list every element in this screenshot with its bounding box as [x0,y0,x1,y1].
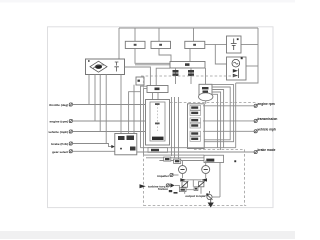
output wire 2 [203,120,254,122]
loop wire right outer [235,83,237,148]
transfer-fcn block with gain diamond [86,59,125,75]
wire bus to block R3 [193,28,195,41]
wire block A drop 1 [175,68,177,84]
impeller port [170,173,173,176]
output wire 1 [203,105,254,107]
ground [208,200,214,208]
svg-text:brake (ft-lb): brake (ft-lb) [51,142,68,146]
turbine wire [169,184,172,186]
wire right drop from bus [236,28,258,83]
wire to mult circle 1 [182,161,184,166]
wire JK to integrator 2 [157,93,159,100]
output label 3 [258,127,276,131]
wire bus to block R1 [134,28,136,41]
chip cell 3b [190,137,201,142]
svg-text:friction: friction [158,187,168,191]
svg-text:engine rpm: engine rpm [258,102,275,106]
top window strip [0,0,295,3]
bottom bus 1 [141,147,236,149]
converter output box [204,155,224,162]
wire oval to chip top [205,101,207,104]
wire transfer-fcn leg 4 [105,75,107,144]
input label 2 [50,120,69,124]
sheet border frame [48,27,274,208]
input port 4 [69,142,72,145]
input wire 3 [73,131,146,133]
wire tap down to block A [215,44,226,64]
loop wire left inner [144,89,205,156]
bottom bus 2 [146,157,209,159]
wire R3 to source V1 [205,43,227,45]
loop wire right 3 [212,90,224,148]
small block C1 [179,188,186,192]
chip cell 1b [190,111,201,116]
chip cell 2b [190,123,201,128]
input wire 4 [73,144,112,147]
wire into flat block second [156,68,170,85]
output wire 3 [203,130,254,132]
wire down to converter box in2 [129,92,141,134]
wire circle 1 down [182,174,184,179]
bus tap marker pair 1 [173,70,179,76]
bottom window strip [0,231,295,239]
source V1 [227,36,242,53]
input port 1 [69,103,72,106]
wire transfer-fcn leg 3 [99,75,101,132]
wire block R1 down [135,49,170,65]
output port 4 [254,150,257,153]
dashed boundary mid [170,102,258,104]
wide block A [170,62,205,69]
wire block R2 down [159,49,171,62]
wire down to converter box in3 [133,85,135,134]
diode arrow 1 [180,178,189,181]
wire JK to integrator 1 [152,93,154,100]
svg-text:engine (rpm): engine (rpm) [50,120,69,124]
wire source V2 to right drop [246,65,258,67]
converter box [115,134,137,155]
wire source V1 to right drop [241,43,258,45]
loop wire right 2 [212,92,221,150]
small block P on boundary [136,77,144,85]
dashed boundary top [141,75,238,77]
wire resistor 2 down [200,187,202,194]
input wire 2 [73,120,146,122]
wire transfer-fcn leg 2 [94,75,96,122]
variable resistor 2 [198,181,205,187]
wire C1 to C2 [186,189,194,191]
wire transfer-fcn leg 1 [88,75,90,105]
bus tap marker pair 2 [188,70,194,76]
input label 5 [52,150,68,154]
svg-text:vehicle mph: vehicle mph [258,127,276,131]
loop wire right 1 [212,94,218,147]
wire right drop to valve [219,161,221,198]
output port 1 [254,104,257,107]
turbine port label [148,184,165,188]
loop wire left outer [141,86,148,148]
small block on bus B1 [164,157,171,161]
wire down to converter box in1 [120,75,122,134]
wire block R3 down [189,49,191,62]
output label 4 [258,148,276,152]
gain triangle [170,183,174,187]
integrator outer box [146,100,170,146]
impeller wire [173,174,178,176]
diode arrow 2 [198,178,208,181]
block R3 [185,41,205,48]
block R1 [125,41,145,48]
input label 1 [49,103,68,107]
svg-text:impeller: impeller [157,174,170,178]
arrowhead into converter [111,145,115,148]
integrator inner box [150,102,165,141]
wire label row to valve [202,195,207,197]
variable resistor 1 [181,181,188,187]
input wire 5 [73,150,115,152]
loop wire right 4 [204,87,230,140]
input label 3 [48,130,68,134]
dashed boundary bottom [144,205,247,207]
junction wire between arrows [189,180,197,187]
output label 2 [258,117,278,121]
wire to mult circle 2 [205,161,207,166]
svg-text:vehicle (mph): vehicle (mph) [48,130,68,134]
input port 2 [69,119,72,122]
chip U1 [188,104,205,149]
source V2 [227,57,247,80]
mult circle 1 [179,166,187,174]
riser wire 2 [174,97,176,158]
small block C2 [194,187,198,191]
dashed boundary right [243,149,245,205]
rounded block S with oval [199,84,213,101]
dashed boundary lower [194,148,244,150]
wire top bus [119,27,258,29]
chip cell 2a [190,118,201,123]
riser wire 1 [171,97,173,156]
svg-text:brake mode: brake mode [258,148,276,152]
input port 3 [69,130,72,133]
junction dot right of box [234,160,236,162]
input wire 1 [73,104,146,106]
wire bus to transfer-fcn box top [118,28,120,59]
dashed boundary left [143,76,145,206]
chip cell 1a [190,105,201,110]
mult circle 2 [202,166,210,174]
output torque label [185,194,205,198]
svg-text:gear select: gear select [52,150,68,154]
valve symbol [206,191,212,200]
chip cell 3a [190,131,201,136]
output port 2 [254,119,257,122]
wire block A drop 3 [205,68,207,84]
small tick mark [174,192,178,194]
svg-text:throttle (deg): throttle (deg) [49,103,68,107]
small block on bus B2 [174,159,181,163]
wire right drop to valve horizontal [212,196,220,198]
loop wire right 5 [204,85,233,142]
output label 1 [258,102,275,106]
turbine port [166,184,169,187]
riser wire 3 [178,97,180,161]
wire transfer-fcn output right [125,67,151,86]
label box under integrator [148,148,168,153]
friction label [158,187,172,192]
impeller port label [157,174,170,178]
output port 3 [254,130,257,133]
bottom bus 3 [159,160,220,162]
boundary entry arrow [140,184,146,188]
svg-text:transmission: transmission [258,117,278,121]
flat block JK [147,86,168,93]
wire bus to block R2 [158,28,160,41]
wire circle 2 down [205,174,207,179]
gain wire to block C1 [175,185,180,187]
output wire converter to port 4 [137,151,254,153]
wire resistor 1 down [184,187,186,194]
input port 5 [69,150,72,153]
input label 4 [51,142,68,146]
block R2 [151,41,171,48]
wire block A drop 2 [190,68,192,84]
